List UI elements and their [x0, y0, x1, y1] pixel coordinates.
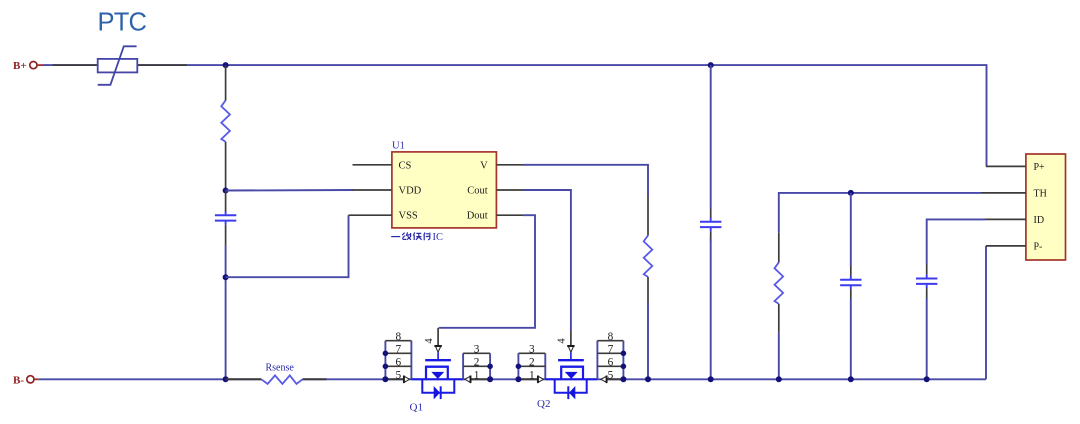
wire P- riser — [985, 246, 987, 379]
svg-text:TH: TH — [1034, 189, 1047, 200]
pin Cout stub — [496, 189, 523, 191]
junction VSS node — [223, 274, 229, 280]
pin P- stub — [986, 245, 1026, 247]
pin VSS stub — [349, 214, 392, 216]
svg-text:8: 8 — [608, 331, 614, 343]
resistor R2 top pin — [647, 196, 649, 236]
junction pin7 — [383, 351, 389, 357]
junction pin2 — [487, 364, 493, 370]
wire rail through Q1 — [411, 378, 463, 380]
wire TH — [779, 193, 981, 233]
junction VDD node — [223, 188, 229, 194]
svg-text:5: 5 — [395, 369, 401, 381]
wire cap branch lower — [710, 239, 712, 380]
connector J1 body — [1026, 154, 1066, 260]
svg-text:Cout: Cout — [467, 186, 488, 197]
svg-text:4: 4 — [424, 338, 435, 344]
transistor Q1 gate pin wire — [437, 328, 439, 346]
transistor Q2 gate lead — [570, 352, 572, 360]
capacitor C2 bottom pin — [710, 231, 712, 241]
capacitor C1 plates — [225, 211, 227, 214]
junction pin5 rail — [620, 376, 626, 382]
svg-text:CS: CS — [399, 160, 412, 171]
pin CS stub — [353, 164, 392, 166]
svg-text:VDD: VDD — [399, 186, 422, 197]
svg-text:1: 1 — [474, 369, 480, 381]
transistor Q1 body — [422, 360, 454, 399]
pin TH stub — [981, 192, 1026, 194]
wire branch A lower — [225, 245, 227, 379]
capacitor C2 plates — [710, 218, 712, 221]
junction pin6 — [621, 364, 627, 370]
capacitor C3 bottom pin — [850, 289, 852, 299]
wire B- tick — [34, 378, 39, 380]
svg-text:3: 3 — [529, 343, 535, 355]
pin 5 arrow — [404, 376, 410, 384]
svg-text:7: 7 — [608, 343, 614, 355]
svg-text:5: 5 — [608, 369, 614, 381]
junction pin6 — [383, 364, 389, 370]
junction R3 rail — [776, 376, 782, 382]
svg-text:6: 6 — [608, 356, 614, 368]
wire rail through Q2 — [545, 378, 597, 380]
wire C4 to rail — [926, 298, 928, 379]
pin V stub — [496, 164, 523, 166]
transistor Q2 gate arrow — [567, 346, 574, 352]
svg-text:Q2: Q2 — [537, 398, 550, 410]
svg-text:2: 2 — [529, 356, 535, 368]
svg-text:P+: P+ — [1034, 162, 1046, 173]
svg-text:VSS: VSS — [399, 211, 418, 222]
svg-text:3: 3 — [474, 343, 480, 355]
svg-text:B+: B+ — [13, 60, 27, 72]
svg-text:B-: B- — [13, 374, 24, 386]
capacitor C4 plates — [926, 274, 928, 277]
Q1 source pin ladder — [463, 353, 490, 379]
svg-text:8: 8 — [395, 331, 401, 343]
resistor Rsense left pin — [226, 378, 262, 380]
wire bottom rail — [39, 378, 262, 380]
pin P+ stub — [986, 165, 1026, 167]
resistor R2 bottom pin — [647, 277, 649, 303]
capacitor C4 top pin — [926, 265, 928, 275]
wire V net — [523, 165, 648, 196]
resistor R3 body — [775, 262, 784, 304]
terminal B+ — [30, 62, 37, 69]
svg-text:U1: U1 — [392, 141, 405, 152]
junction top rail / branch A — [223, 62, 229, 68]
wire cap branch upper — [710, 65, 712, 209]
pin ID stub — [985, 218, 1026, 220]
PTC right pin — [138, 64, 187, 66]
resistor R1 top pin — [225, 65, 227, 100]
wire R3 to rail — [778, 333, 780, 380]
svg-text:6: 6 — [395, 356, 401, 368]
svg-text:IC: IC — [433, 232, 444, 243]
wire C3 branch upper — [850, 193, 852, 266]
op-amp U1 body — [392, 152, 497, 228]
resistor R1 body — [221, 100, 230, 142]
PTC left pin — [53, 64, 98, 66]
junction pin7 — [621, 351, 627, 357]
wire top rail — [43, 65, 987, 166]
resistor R2 body — [644, 235, 653, 277]
junction pin2 — [516, 364, 522, 370]
pin VDD stub — [353, 189, 392, 191]
resistor R3 top pin — [778, 233, 780, 263]
svg-text:7: 7 — [395, 343, 401, 355]
svg-text:PTC: PTC — [98, 9, 147, 37]
junction C3 rail — [848, 376, 854, 382]
wire VSS return — [226, 215, 349, 277]
capacitor C4 bottom pin — [926, 288, 928, 298]
resistor Rsense right pin — [303, 378, 327, 380]
junction C4 rail — [924, 376, 930, 382]
wire VDD — [226, 189, 353, 192]
capacitor C3 top pin — [850, 266, 852, 276]
wire ID — [927, 219, 985, 264]
PTC fuse body — [98, 59, 138, 73]
capacitor C2 top pin — [710, 209, 712, 218]
svg-text:Q1: Q1 — [410, 402, 423, 414]
label 一级保护IC (hand drawn strokes) — [391, 232, 430, 240]
wire Cout net — [523, 190, 571, 331]
wire R2 to rail — [647, 303, 649, 379]
junction top rail / cap branch — [708, 62, 714, 68]
pin 1 arrow — [465, 376, 471, 384]
resistor R3 bottom pin — [778, 304, 780, 333]
svg-text:1: 1 — [529, 369, 535, 381]
resistor R1 bottom pin — [225, 142, 227, 191]
junction pin1 rail — [487, 376, 493, 382]
pin 1 arrow — [538, 376, 544, 384]
svg-text:ID: ID — [1034, 215, 1045, 226]
svg-text:Rsense: Rsense — [266, 363, 295, 374]
junction TH / C3 — [848, 190, 854, 196]
junction R2 rail — [645, 376, 651, 382]
junction bottom rail / branch A — [223, 376, 229, 382]
svg-text:2: 2 — [474, 356, 480, 368]
capacitor C3 plates — [850, 276, 852, 279]
capacitor C1 bottom pin — [225, 225, 227, 245]
svg-text:4: 4 — [557, 338, 568, 344]
transistor Q2 body mirrored — [555, 360, 587, 399]
junction pin1 rail — [515, 376, 521, 382]
Q1 drain pin ladder — [385, 341, 411, 380]
wire Dout net — [439, 215, 535, 328]
pin 5 arrow — [601, 376, 607, 384]
svg-text:P-: P- — [1034, 242, 1043, 253]
Q2 source pin ladder — [518, 353, 545, 379]
junction pin5 rail — [382, 376, 388, 382]
terminal B- — [27, 376, 34, 383]
pin Dout stub — [496, 214, 523, 216]
junction cap branch rail — [708, 376, 714, 382]
svg-text:V: V — [480, 160, 488, 171]
svg-text:Dout: Dout — [467, 211, 488, 222]
PTC diagonal stroke — [98, 46, 137, 85]
Q2 drain pin ladder — [597, 341, 623, 380]
wire C3 to rail — [850, 299, 852, 379]
transistor Q2 gate pin wire — [570, 331, 572, 346]
wire B+ tick — [37, 64, 43, 66]
capacitor C1 top pin — [225, 191, 227, 212]
transistor Q1 gate arrow — [434, 346, 441, 352]
transistor Q1 gate lead — [437, 352, 439, 360]
resistor Rsense body — [261, 375, 302, 384]
